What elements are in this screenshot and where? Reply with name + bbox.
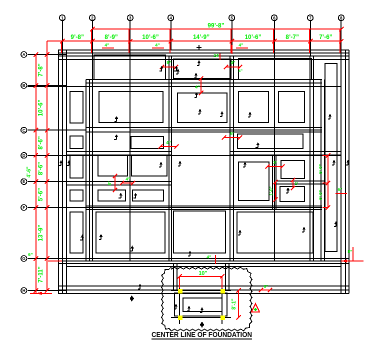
- svg-text:8: 8: [340, 16, 343, 21]
- svg-text:4”: 4”: [126, 177, 131, 182]
- svg-text:8’-6”: 8’-6”: [39, 162, 45, 175]
- svg-text:CENTER LINE OF FOUNDATION: CENTER LINE OF FOUNDATION: [152, 332, 253, 339]
- svg-text:6: 6: [273, 16, 276, 21]
- svg-text:4: 4: [170, 16, 173, 21]
- svg-text:24”: 24”: [214, 53, 221, 58]
- svg-text:8’-1”: 8’-1”: [232, 298, 238, 310]
- svg-text:4”: 4”: [207, 255, 212, 260]
- svg-text:10’-6”: 10’-6”: [142, 35, 159, 41]
- svg-text:1’-0”: 1’-0”: [269, 186, 274, 195]
- svg-text:8’-9”: 8’-9”: [105, 35, 118, 41]
- svg-text:6”: 6”: [264, 284, 268, 289]
- svg-text:10’-6”: 10’-6”: [39, 100, 45, 117]
- svg-text:10”: 10”: [199, 271, 208, 277]
- svg-text:99’-8”: 99’-8”: [208, 24, 225, 30]
- svg-text:4”: 4”: [231, 60, 236, 65]
- svg-text:5: 5: [231, 16, 234, 21]
- svg-text:A: A: [22, 52, 25, 57]
- svg-text:5’-6”: 5’-6”: [39, 188, 45, 201]
- svg-text:2: 2: [91, 16, 94, 21]
- svg-text:4”: 4”: [238, 68, 242, 73]
- svg-text:8’-7”: 8’-7”: [286, 35, 299, 41]
- svg-text:6’-0”: 6’-0”: [318, 190, 323, 200]
- svg-text:D: D: [22, 153, 25, 158]
- svg-text:10’-6”: 10’-6”: [245, 35, 262, 41]
- svg-text:4’-6”: 4’-6”: [27, 166, 33, 178]
- svg-text:H: H: [22, 288, 25, 293]
- svg-text:4”: 4”: [155, 43, 160, 48]
- svg-text:7’-11”: 7’-11”: [39, 266, 45, 282]
- svg-text:8”: 8”: [167, 60, 172, 65]
- svg-text:C: C: [22, 128, 25, 133]
- svg-text:4”: 4”: [105, 43, 110, 48]
- svg-text:6”: 6”: [28, 252, 33, 257]
- svg-text:G: G: [22, 256, 25, 261]
- svg-text:6”: 6”: [338, 187, 342, 192]
- svg-text:4”: 4”: [239, 43, 244, 48]
- svg-text:1: 1: [61, 16, 64, 21]
- svg-text:13’-9”: 13’-9”: [39, 225, 45, 242]
- svg-text:14’-9”: 14’-9”: [193, 35, 210, 41]
- svg-text:5’-0”: 5’-0”: [318, 164, 323, 174]
- svg-text:7’-6”: 7’-6”: [319, 35, 332, 41]
- svg-text:8”: 8”: [107, 181, 112, 185]
- svg-text:B: B: [22, 83, 25, 88]
- svg-text:3: 3: [129, 16, 132, 21]
- svg-text:8”: 8”: [348, 249, 353, 254]
- svg-text:1’: 1’: [295, 181, 299, 186]
- svg-text:7’-8”: 7’-8”: [39, 63, 45, 76]
- svg-text:3’: 3’: [273, 160, 277, 165]
- svg-text:F: F: [23, 205, 26, 210]
- svg-text:9’-8”: 9’-8”: [71, 35, 84, 41]
- svg-text:E: E: [23, 179, 26, 184]
- svg-text:4”: 4”: [195, 85, 200, 90]
- svg-text:5’: 5’: [230, 131, 234, 136]
- svg-text:4”: 4”: [166, 140, 171, 145]
- svg-text:8’-6”: 8’-6”: [39, 136, 45, 149]
- svg-text:7: 7: [309, 16, 312, 21]
